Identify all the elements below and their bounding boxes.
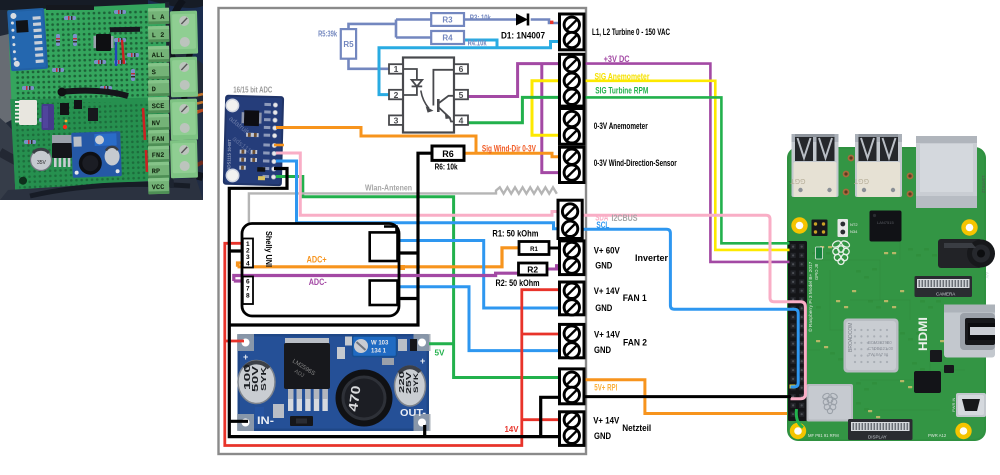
terminal block L1 L2 turbine — [560, 14, 585, 50]
resistor R2 — [519, 263, 548, 275]
svg-text:R4: R4 — [442, 34, 453, 43]
svg-text:© Raspberry Pi 3 Model B+ 2017: © Raspberry Pi 3 Model B+ 2017 — [807, 261, 814, 332]
terminal block inverter — [560, 241, 585, 275]
schematic frame — [219, 8, 587, 454]
svg-text:25V: 25V — [406, 371, 413, 394]
camera connector — [915, 276, 973, 297]
phototransistor inside optocoupler — [433, 70, 454, 106]
pin 1 — [389, 64, 403, 74]
svg-text:L 2: L 2 — [152, 32, 165, 40]
svg-text:FAN 1: FAN 1 — [623, 293, 647, 303]
Shelly pin block 1-4 — [243, 239, 253, 268]
svg-text:GND: GND — [595, 261, 612, 271]
trim potentiometer — [353, 336, 397, 357]
mounting hole — [791, 217, 807, 233]
blue ADC module — [7, 8, 48, 71]
Shelly UNI body — [242, 224, 399, 317]
wire purple branch to wind-direction GND terminal — [542, 64, 562, 173]
svg-text:ALL: ALL — [152, 52, 165, 60]
USB port — [792, 134, 839, 197]
junction ADC+ at Shelly edge — [399, 265, 406, 270]
svg-text:GPIO J8: GPIO J8 — [814, 263, 819, 280]
svg-text:NT2: NT2 — [850, 222, 858, 227]
svg-text:4: 4 — [246, 261, 250, 268]
svg-text:HDMI: HDMI — [918, 317, 930, 351]
svg-text:ADS1115 16-BIT: ADS1115 16-BIT — [226, 139, 232, 171]
wire +3V DC to RPi GPIO (purple) — [584, 64, 790, 262]
Shelly pin block 5-8 — [243, 277, 253, 305]
svg-text:GND: GND — [594, 345, 611, 355]
svg-text:L1, L2 Turbine 0 - 150 VAC: L1, L2 Turbine 0 - 150 VAC — [592, 27, 670, 37]
svg-text:R3: 10k: R3: 10k — [470, 13, 491, 23]
svg-text:L A: L A — [152, 14, 166, 22]
Shelly connector bottom — [370, 281, 398, 306]
resistor R6 — [432, 146, 464, 160]
svg-text:35V: 35V — [37, 160, 47, 166]
svg-text:ADC+: ADC+ — [307, 255, 327, 266]
svg-text:Sig Wind-Dir 0-3V: Sig Wind-Dir 0-3V — [482, 144, 536, 154]
wire R4 to terminal L2 and opto pin2 (cyan) — [379, 40, 562, 95]
svg-text:GND: GND — [595, 303, 612, 313]
PoE header — [812, 220, 828, 237]
wire SIG anemometer loop (yellow) — [532, 81, 562, 136]
svg-text:8: 8 — [246, 293, 250, 300]
wire R2 to inverter GND terminal (purple) — [547, 266, 560, 269]
svg-text:SYK: SYK — [261, 367, 268, 391]
USB port — [855, 134, 902, 197]
pin 2 — [389, 90, 403, 100]
svg-text:14V: 14V — [505, 424, 519, 434]
svg-text:SYK: SYK — [414, 372, 420, 393]
svg-text:Netzteil: Netzteil — [622, 423, 651, 433]
pin 4 — [454, 115, 468, 125]
svg-text:+: + — [243, 352, 248, 362]
buck module — [71, 131, 122, 178]
svg-text:2: 2 — [394, 90, 399, 100]
wire R6 to 0-3V wind-direction terminal (orange) — [464, 153, 562, 157]
svg-text:PWR A12: PWR A12 — [928, 433, 947, 438]
svg-text:134 1: 134 1 — [371, 349, 387, 355]
svg-text:FAN: FAN — [152, 136, 165, 144]
svg-text:W 103: W 103 — [371, 341, 389, 347]
svg-text:V+ 14V: V+ 14V — [594, 330, 620, 340]
LED inside optocoupler — [403, 69, 417, 95]
capacitor output (220 25V) — [395, 366, 426, 406]
svg-text:BROADCOM: BROADCOM — [848, 323, 854, 352]
svg-text:SIG Turbine RPM: SIG Turbine RPM — [595, 86, 648, 96]
svg-text:V+ 14V: V+ 14V — [593, 416, 619, 426]
svg-text:NV: NV — [152, 120, 161, 128]
wire wlan antenna (gray) — [249, 187, 557, 224]
ADC module photo — [223, 95, 284, 187]
svg-text:N34: N34 — [850, 229, 858, 234]
svg-text:OUT-: OUT- — [400, 408, 426, 419]
svg-text:PWR IN: PWR IN — [951, 397, 956, 412]
pin 6 — [454, 64, 468, 74]
svg-text:TW 8A7 M: TW 8A7 M — [868, 352, 888, 357]
svg-text:D1: 1N4007: D1: 1N4007 — [501, 31, 545, 42]
raspberry pi logo — [831, 240, 850, 265]
svg-text:R2: R2 — [527, 264, 538, 274]
svg-text:VCC: VCC — [152, 184, 165, 192]
svg-text:R1: R1 — [530, 247, 538, 253]
wire ADC SCL to I2C terminal (blue) — [276, 161, 560, 229]
resistor R3 — [431, 13, 464, 26]
wire ADC SDA to I2C terminal (pink) — [276, 153, 560, 215]
svg-text:V+ 14V: V+ 14V — [594, 286, 620, 296]
white connector — [19, 100, 37, 125]
electrolytic cap — [31, 150, 52, 171]
pin 5 — [454, 90, 468, 100]
resistor R5 — [341, 29, 356, 59]
svg-text:+: + — [420, 356, 425, 366]
terminal block 3V/SIG — [560, 54, 585, 106]
svg-text:13AT812: 13AT812 — [981, 175, 986, 193]
micro USB power — [956, 393, 986, 417]
wire R5 bottom to opto pin1 — [349, 59, 390, 69]
svg-text:FAN 2: FAN 2 — [623, 338, 647, 348]
ethernet port — [916, 136, 977, 208]
terminal block FAN 2 — [560, 324, 585, 357]
terminal block RPI 5V — [560, 369, 585, 404]
wire green jumper hook on RPi — [796, 409, 803, 428]
perfboard — [8, 3, 175, 196]
pin 3 — [389, 115, 403, 125]
wire SIG turbine RPM to RPi GPIO (green) — [584, 97, 790, 243]
svg-text:SIG Anemometer: SIG Anemometer — [595, 72, 650, 82]
svg-text:CAMERA: CAMERA — [936, 292, 955, 297]
svg-text:LAN7515: LAN7515 — [877, 220, 894, 225]
wire 14V net: Shelly pin1 / buck IN+ / V+ terminals (red) — [225, 243, 560, 445]
svg-text:R6: 10k: R6: 10k — [435, 162, 458, 172]
mounting hole — [961, 219, 977, 235]
svg-text:3: 3 — [394, 115, 399, 125]
wire SDA to RPi GPIO (pink) — [582, 215, 806, 398]
controller PCB — [10, 94, 173, 194]
terminal block Netzteil — [560, 412, 585, 446]
GPIO header — [788, 241, 807, 421]
svg-text:Shelly UNI: Shelly UNI — [264, 231, 274, 267]
wire R6 GND branch to Shelly connectors (black) — [229, 153, 432, 325]
wire Shelly out2 to FAN2 GND (blue) — [396, 287, 560, 351]
svg-text:6: 6 — [459, 64, 464, 74]
svg-text:16/15 bit ADC: 16/15 bit ADC — [233, 85, 272, 95]
svg-text:V+ 60V: V+ 60V — [594, 245, 620, 255]
svg-text:Inverter: Inverter — [635, 253, 668, 263]
svg-text:Wlan-Antenen: Wlan-Antenen — [365, 183, 412, 193]
wire GND net: ADC GND down left side and bottom (black) — [229, 169, 558, 437]
svg-text:4: 4 — [459, 115, 464, 125]
IC chip — [96, 34, 111, 51]
svg-text:R6: R6 — [442, 149, 454, 159]
wire SCL to RPi GPIO (blue) — [582, 229, 798, 387]
coupling arrow — [421, 91, 429, 109]
svg-text:0-3V Wind-Direction-Sensor: 0-3V Wind-Direction-Sensor — [594, 158, 677, 168]
wire 5V+ RPI terminal to RPi (orange) — [585, 380, 788, 414]
WiFi shield — [807, 384, 854, 422]
svg-text:+3V DC: +3V DC — [604, 54, 630, 64]
terminal block 0-3V wind-direction — [560, 147, 585, 182]
svg-text:FN2: FN2 — [152, 152, 165, 160]
svg-text:220: 220 — [399, 371, 406, 393]
terminal block I2C bus — [558, 200, 582, 238]
wire ADC+ from Shelly pin4 to R1 (orange) — [238, 248, 520, 267]
HDMI port — [944, 305, 995, 358]
svg-text:R4:10k: R4:10k — [468, 38, 487, 48]
Shelly connector top — [370, 232, 398, 261]
svg-text:R2: 50 kOhm: R2: 50 kOhm — [496, 278, 540, 289]
wire ADC wind-dir signal to R6 node (orange) — [276, 128, 476, 154]
terminal blocks — [165, 2, 174, 188]
purple capacitor — [42, 104, 55, 130]
svg-text:SCL: SCL — [596, 220, 609, 230]
small parts on buck — [273, 404, 284, 418]
wire R1 to V+60V terminal (black) — [549, 247, 561, 250]
wire opto pin4 to SIG turbine RPM terminal (green) — [467, 97, 562, 122]
LAN controller chip — [870, 211, 902, 242]
svg-text:IN-: IN- — [257, 415, 274, 427]
svg-text:5V+ RPI: 5V+ RPI — [594, 383, 617, 393]
svg-text:D: D — [152, 86, 156, 94]
svg-text:5V: 5V — [435, 348, 445, 358]
svg-text:A/V: A/V — [985, 272, 990, 279]
wire SIG anemometer to RPi GPIO (yellow) — [584, 81, 790, 250]
LM2596 regulator — [285, 338, 329, 352]
inductor 470 — [336, 370, 393, 427]
wire RPi GND terminal to RPi GPIO (black) — [585, 395, 792, 398]
svg-text:6: 6 — [246, 279, 250, 286]
audio jack — [938, 239, 982, 268]
regulator with heatsink — [52, 135, 72, 145]
svg-text:5: 5 — [459, 90, 464, 100]
svg-text:R3: R3 — [442, 16, 453, 25]
svg-text:BCM2837B0: BCM2837B0 — [868, 340, 892, 345]
svg-text:I2CBUS: I2CBUS — [612, 213, 638, 223]
svg-text:50V: 50V — [251, 365, 260, 392]
buck converter module photo — [238, 334, 430, 431]
wire 5V net: ADC VDD to buck 5V out to 5V+ RPI terminal (green) — [276, 177, 560, 378]
svg-text:ADC-: ADC- — [309, 277, 327, 288]
mounting hole — [790, 423, 806, 439]
svg-text:1: 1 — [394, 64, 399, 74]
capacitor input (100 50V) — [238, 361, 275, 404]
svg-text:MF P81 91 RFM: MF P81 91 RFM — [808, 433, 839, 438]
svg-text:SCE: SCE — [152, 103, 165, 111]
svg-text:R1: 50 kOhm: R1: 50 kOhm — [492, 229, 538, 240]
svg-text:RP: RP — [152, 168, 161, 176]
svg-text:CTDBG21.00: CTDBG21.00 — [868, 346, 894, 351]
diode D1 — [516, 14, 528, 26]
resistor R1 — [519, 242, 549, 255]
wire ADC addr stub (orange) — [274, 144, 284, 147]
resistor R4 — [431, 31, 464, 44]
svg-text:S: S — [152, 69, 156, 77]
display connector — [848, 419, 913, 440]
wire R5 to R3/R4 junction — [349, 20, 432, 38]
svg-text:DISPLAY: DISPLAY — [868, 435, 887, 440]
wire Shelly out1 to FAN1 GND (blue) — [396, 241, 560, 309]
svg-text:R5:39k: R5:39k — [318, 29, 337, 39]
Broadcom SoC — [844, 319, 899, 373]
svg-text:GGT: GGT — [790, 177, 806, 184]
svg-text:GGT: GGT — [853, 177, 869, 184]
wire opto pin5 to +3V DC terminal (purple) — [467, 64, 562, 97]
terminal block 0-3V anemometer — [560, 109, 585, 145]
svg-text:0-3V Anemometer: 0-3V Anemometer — [594, 121, 648, 131]
svg-text:R5: R5 — [343, 40, 354, 49]
svg-text:7: 7 — [246, 286, 250, 293]
wire ADC- from Shelly pin6 to R2 (purple) — [234, 273, 520, 281]
op-amp/optocoupler U1 body — [403, 58, 454, 133]
terminal block FAN 1 — [560, 282, 585, 315]
wire R3 to diode D1 to terminal L1 — [464, 20, 562, 24]
mounting hole — [955, 423, 971, 439]
svg-text:GND: GND — [594, 431, 611, 441]
